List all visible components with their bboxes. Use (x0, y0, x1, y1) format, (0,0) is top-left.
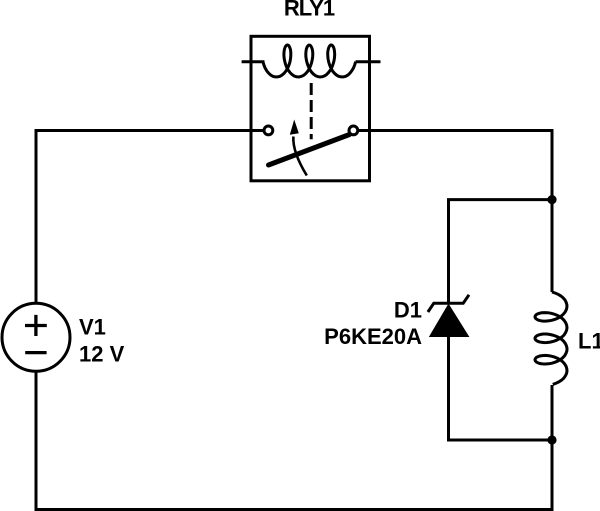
relay RLY1 body box (251, 36, 370, 181)
V1 minus sign (25, 351, 46, 354)
relay coil stub left (242, 60, 265, 63)
wire: snubber branch bottom (449, 335, 553, 440)
svg-text:RLY1: RLY1 (284, 0, 335, 20)
switch contact right (349, 126, 358, 135)
svg-text:V1: V1 (79, 315, 106, 340)
switch contact left (264, 126, 273, 135)
wire: top-left horizontal from V1 branch to relay left contact (36, 131, 263, 304)
relay coil winding (263, 45, 356, 77)
wire: left vertical below V1 to bottom rail (36, 371, 552, 509)
svg-text:D1: D1 (394, 298, 422, 323)
V1 plus sign (25, 315, 47, 336)
relay armature dashed linkage (310, 83, 313, 139)
actuation arrow head (290, 120, 299, 135)
svg-text:P6KE20A: P6KE20A (324, 324, 422, 349)
inductor L1 winding (535, 292, 567, 384)
switch blade (269, 135, 350, 166)
svg-text:12 V: 12 V (79, 342, 125, 367)
wire: snubber branch top (449, 200, 553, 303)
relay coil stub right (356, 60, 381, 63)
TVS diode D1 cathode bar (428, 295, 469, 312)
wire: relay right contact to right rail, down to L1 (359, 131, 553, 293)
junction node top (547, 195, 556, 204)
TVS diode D1 triangle (430, 305, 469, 337)
svg-text:L1: L1 (578, 329, 600, 354)
actuation arrow curve (293, 137, 306, 176)
voltage source V1 circle (2, 303, 70, 371)
junction node bottom (547, 435, 556, 444)
